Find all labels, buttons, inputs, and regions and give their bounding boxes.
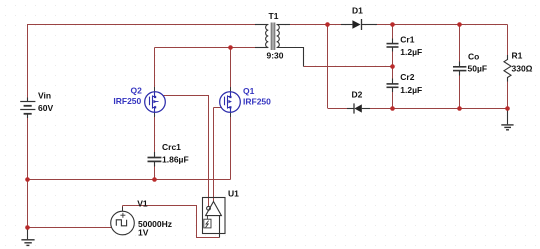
svg-text:U1: U1 (228, 189, 239, 199)
svg-text:1.86µF: 1.86µF (162, 155, 189, 165)
svg-text:Vin: Vin (38, 91, 51, 101)
svg-text:D1: D1 (352, 6, 363, 16)
svg-text:1V: 1V (138, 228, 149, 238)
svg-text:Q2: Q2 (131, 85, 143, 95)
svg-text:Co: Co (468, 52, 479, 62)
svg-text:Cr2: Cr2 (400, 72, 414, 82)
svg-text:330Ω: 330Ω (512, 64, 533, 74)
svg-text:IRF250: IRF250 (243, 96, 271, 106)
svg-text:9:30: 9:30 (267, 51, 284, 61)
svg-text:IRF250: IRF250 (113, 96, 141, 106)
svg-text:D2: D2 (352, 90, 363, 100)
svg-text:R1: R1 (512, 51, 523, 61)
svg-text:50µF: 50µF (468, 64, 488, 74)
svg-text:Q1: Q1 (243, 86, 255, 96)
svg-text:1.2µF: 1.2µF (400, 47, 422, 57)
svg-text:V1: V1 (137, 199, 148, 209)
svg-text:T1: T1 (269, 11, 279, 21)
svg-text:Cr1: Cr1 (400, 35, 414, 45)
svg-text:1.2µF: 1.2µF (400, 85, 422, 95)
svg-text:60V: 60V (38, 103, 53, 113)
svg-text:Crc1: Crc1 (162, 142, 181, 152)
